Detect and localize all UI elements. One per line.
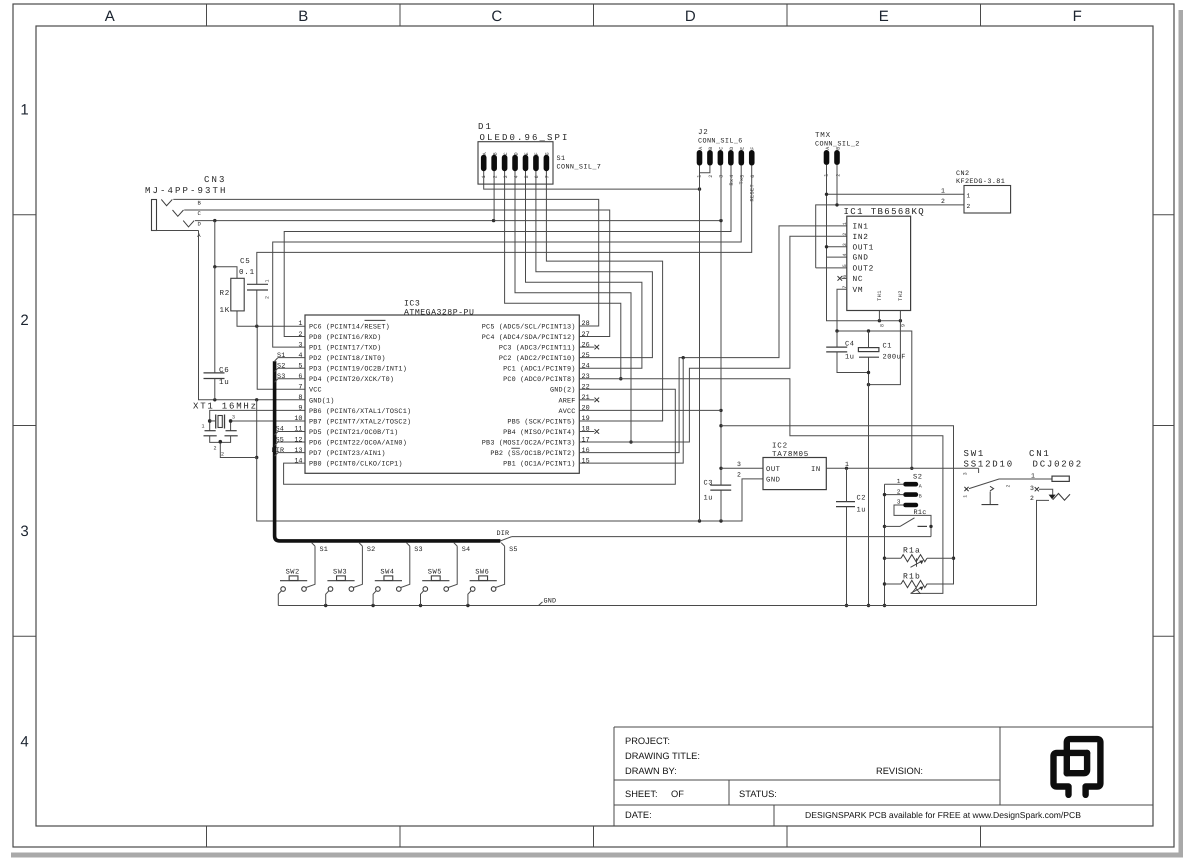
svg-text:7: 7	[545, 175, 551, 178]
svg-text:PB2 (SS/OC1B/PCINT2): PB2 (SS/OC1B/PCINT2)	[490, 450, 575, 458]
svg-text:E: E	[524, 152, 530, 155]
svg-text:D1: D1	[478, 122, 493, 132]
svg-text:MJ-4PP-93TH: MJ-4PP-93TH	[145, 186, 228, 196]
wire GND rail mid	[257, 458, 763, 523]
svg-text:3: 3	[298, 341, 302, 349]
svg-text:1u: 1u	[704, 495, 713, 503]
wire OUT2 TMX2 CN2 pin2	[816, 165, 964, 268]
connector CN3 body	[152, 200, 157, 231]
wire D1 pin4 to MOSI	[515, 171, 633, 444]
wire net DIR	[497, 526, 932, 541]
svg-text:J2: J2	[698, 128, 709, 137]
wire S2 pin3 route	[894, 505, 931, 526]
svg-text:8: 8	[880, 324, 886, 327]
svg-text:23: 23	[582, 373, 590, 381]
svg-text:A: A	[825, 146, 831, 149]
connector CN3 contact D	[183, 221, 194, 227]
title block field DRAWING TITLE	[625, 751, 700, 761]
svg-text:15: 15	[582, 457, 590, 465]
svg-text:2: 2	[835, 173, 841, 176]
svg-text:2: 2	[737, 471, 742, 478]
svg-text:R2: R2	[220, 289, 231, 298]
svg-text:4: 4	[842, 253, 848, 256]
svg-text:Tx: Tx	[739, 177, 745, 184]
wire net S1 drop	[306, 543, 328, 588]
crystal XT1 plates	[216, 415, 225, 429]
connector CN1 spring contact	[1053, 494, 1070, 501]
title block note DesignSpark	[805, 810, 1081, 820]
wire GND drop x257	[255, 400, 258, 459]
bus DIR-S1..S5 thick line	[275, 361, 501, 541]
svg-text:F: F	[1073, 8, 1082, 25]
svg-text:1: 1	[842, 222, 848, 225]
wire J2 pin2 jog	[700, 166, 710, 173]
svg-text:6: 6	[298, 373, 302, 381]
wire net S2 pin5 bus entry	[275, 362, 305, 371]
svg-text:1u: 1u	[219, 379, 230, 387]
svg-text:C2: C2	[857, 495, 866, 503]
wire crystal pin2 to GND	[220, 442, 256, 457]
svg-text:PD2 (PCINT18/INT0): PD2 (PCINT18/INT0)	[309, 355, 386, 363]
wire net C	[184, 210, 610, 337]
wire C3 bottom	[720, 490, 722, 521]
switch SW1 label	[964, 449, 1014, 469]
title block field REVISION	[876, 766, 923, 776]
svg-text:PB1 (OC1A/PCINT1): PB1 (OC1A/PCINT1)	[503, 461, 575, 469]
wire C6 top	[214, 267, 216, 373]
wire C4 top	[836, 331, 838, 347]
svg-text:S1: S1	[557, 155, 566, 163]
title block field DRAWN BY	[625, 766, 677, 776]
svg-text:CONN_SIL_7: CONN_SIL_7	[557, 164, 602, 172]
svg-text:TH1: TH1	[877, 290, 883, 301]
wire net S5 pin12 bus entry	[275, 436, 305, 445]
wire VCC pin7 riser	[257, 326, 305, 389]
wire D1 pin7 to SCK	[546, 171, 662, 421]
svg-text:B: B	[492, 152, 498, 155]
svg-text:27: 27	[582, 331, 590, 339]
connector CN3 contact B	[161, 199, 172, 205]
svg-text:S4: S4	[462, 546, 471, 554]
wire D1 pin5 to PC1	[526, 171, 642, 369]
connector CN3 pin labels	[197, 200, 201, 239]
svg-text:6: 6	[534, 175, 540, 178]
svg-text:14: 14	[294, 457, 302, 465]
title block field PROJECT	[625, 736, 670, 746]
wire D1 pin6 to PC2	[536, 171, 653, 358]
wire SW6 left contact to GND	[468, 591, 471, 606]
svg-text:17: 17	[582, 436, 590, 444]
svg-text:PD0 (PCINT16/RXD): PD0 (PCINT16/RXD)	[309, 334, 381, 342]
connector CN1 pin2	[1030, 495, 1049, 605]
svg-text:OF: OF	[671, 789, 684, 799]
svg-text:RESET: RESET	[750, 184, 756, 202]
svg-text:2: 2	[20, 312, 28, 329]
page shadow bottom	[11, 853, 1183, 858]
wire pin1 line	[237, 311, 305, 328]
svg-text:26: 26	[582, 341, 590, 349]
column labels A-F	[105, 8, 1082, 25]
svg-text:PB6 (PCINT6/XTAL1/TOSC1): PB6 (PCINT6/XTAL1/TOSC1)	[309, 408, 411, 416]
resistor R2	[220, 278, 245, 315]
svg-text:B: B	[835, 146, 841, 149]
svg-text:PC4 (ADC4/SDA/PCINT12): PC4 (ADC4/SDA/PCINT12)	[482, 334, 576, 342]
capacitor C3	[704, 480, 732, 503]
svg-text:SHEET:: SHEET:	[625, 789, 658, 799]
svg-text:PC0 (ADC0/PCINT8): PC0 (ADC0/PCINT8)	[503, 376, 575, 384]
svg-text:F: F	[534, 152, 540, 155]
svg-text:DCJ0202: DCJ0202	[1033, 460, 1083, 470]
crystal load capacitor left	[204, 431, 217, 436]
svg-text:CN2: CN2	[956, 170, 969, 178]
svg-text:1: 1	[1031, 472, 1036, 479]
svg-text:GND(1): GND(1)	[309, 397, 335, 405]
svg-text:1: 1	[20, 101, 28, 118]
IC IC1 no-connect pin NC	[838, 276, 847, 281]
svg-text:20: 20	[582, 405, 590, 413]
connector CN2 label	[956, 170, 1005, 186]
capacitor C2	[836, 495, 866, 515]
wire S2 pin1	[885, 483, 904, 485]
IC IC3 left pin names and numbers 1-14	[294, 320, 411, 468]
switch SW2	[280, 568, 307, 591]
switch SW5	[422, 568, 449, 591]
wire CN3 bottom to A	[152, 230, 199, 232]
potentiometer R1b	[885, 572, 928, 593]
page shadow right	[1179, 10, 1184, 853]
wire VM net	[835, 289, 913, 470]
svg-text:28: 28	[582, 320, 590, 328]
svg-text:PB5 (SCK/PCINT5): PB5 (SCK/PCINT5)	[507, 418, 575, 426]
svg-text:4: 4	[20, 734, 28, 751]
svg-text:VM: VM	[853, 286, 864, 295]
svg-text:21: 21	[582, 394, 590, 402]
connector TMX CONN_SIL_2	[815, 132, 860, 177]
wire S2 common riser	[883, 484, 886, 607]
svg-text:PC2 (ADC2/PCINT10): PC2 (ADC2/PCINT10)	[499, 355, 576, 363]
svg-text:2: 2	[213, 446, 216, 452]
wire net S1 pin4 bus entry	[275, 352, 305, 361]
IC IC2 body	[763, 458, 826, 490]
crystal XT1 pin3	[229, 415, 305, 431]
svg-text:CONN_SIL_6: CONN_SIL_6	[698, 138, 743, 146]
wire +5V to IC2 OUT	[721, 467, 763, 469]
svg-text:Rx: Rx	[729, 178, 735, 185]
svg-text:200uF: 200uF	[883, 354, 907, 362]
wire net DIR pin13 bus entry	[272, 447, 305, 456]
wire R2 top to net D	[213, 221, 237, 279]
svg-text:SW3: SW3	[333, 568, 347, 576]
IC IC3 SS overline	[511, 447, 520, 449]
svg-text:SW6: SW6	[475, 568, 489, 576]
switch R1c lever	[885, 509, 933, 528]
wire TH1 stub	[878, 311, 880, 321]
connector CN3 contact C	[173, 210, 184, 216]
wire net S2 drop	[353, 543, 375, 588]
IC IC3 right pin names and numbers 15-28	[482, 320, 590, 468]
svg-text:TH2: TH2	[898, 290, 904, 301]
wire net S4 pin11 bus entry	[275, 426, 305, 435]
IC IC3 no-connect pin 21	[579, 398, 599, 403]
potentiometer R1a	[885, 546, 954, 567]
svg-text:3: 3	[719, 174, 725, 177]
svg-text:9: 9	[901, 324, 907, 327]
wire SW4 left contact to GND	[373, 591, 376, 606]
svg-text:3: 3	[503, 175, 509, 178]
svg-text:AREF: AREF	[558, 397, 575, 405]
IC IC3 body	[305, 315, 579, 473]
svg-text:19: 19	[582, 415, 590, 423]
svg-text:D: D	[685, 8, 696, 25]
connector CN1 center pin triangle	[1049, 495, 1056, 500]
svg-text:A: A	[482, 152, 488, 155]
svg-text:GND(2): GND(2)	[550, 387, 576, 395]
svg-text:PD6 (PCINT22/OC0A/AIN0): PD6 (PCINT22/OC0A/AIN0)	[309, 439, 407, 447]
svg-text:DIR: DIR	[497, 530, 510, 538]
svg-text:S2: S2	[913, 473, 922, 481]
svg-text:E: E	[740, 146, 746, 149]
wire J2 pin1 drop	[699, 166, 701, 522]
svg-text:IC1 TB6568KQ: IC1 TB6568KQ	[844, 207, 926, 217]
svg-text:AVCC: AVCC	[558, 408, 575, 416]
svg-text:C: C	[719, 146, 725, 149]
DesignSpark logo	[1054, 739, 1101, 795]
wire TH2 stub to C1	[867, 311, 901, 387]
svg-text:PB0 (PCINT0/CLKO/ICP1): PB0 (PCINT0/CLKO/ICP1)	[309, 461, 403, 469]
svg-text:11: 11	[294, 426, 302, 434]
svg-text:4: 4	[298, 352, 302, 360]
svg-text:C: C	[503, 152, 509, 155]
svg-text:5: 5	[524, 175, 530, 178]
switch SW3	[327, 568, 354, 591]
svg-text:S1: S1	[320, 546, 329, 554]
wire net D +5V main	[195, 219, 723, 485]
svg-text:F: F	[750, 146, 756, 149]
svg-text:2: 2	[708, 174, 714, 177]
IC IC2 pin number labels	[737, 461, 850, 479]
svg-text:2: 2	[298, 331, 302, 339]
svg-text:PC5 (ADC5/SCL/PCINT13): PC5 (ADC5/SCL/PCINT13)	[482, 323, 576, 331]
IC IC3 no-connect pin 18	[579, 429, 599, 434]
wire C1 bottom	[867, 357, 870, 607]
svg-text:C: C	[491, 8, 502, 25]
svg-text:TMX: TMX	[815, 132, 831, 140]
title block grid	[614, 727, 1153, 826]
svg-text:PC1 (ADC1/PCINT9): PC1 (ADC1/PCINT9)	[503, 366, 575, 374]
crystal XT1 label	[193, 402, 258, 412]
svg-text:B: B	[298, 8, 308, 25]
svg-text:25: 25	[582, 352, 590, 360]
svg-text:IC2: IC2	[772, 442, 788, 451]
wire AVCC pin20	[579, 409, 721, 411]
svg-text:3: 3	[737, 461, 742, 468]
svg-text:A: A	[919, 483, 922, 489]
svg-text:IN2: IN2	[853, 233, 869, 242]
svg-text:6: 6	[750, 174, 756, 177]
wire C6 bottom	[214, 379, 216, 400]
svg-text:PB7 (PCINT7/XTAL2/TOSC2): PB7 (PCINT7/XTAL2/TOSC2)	[309, 418, 411, 426]
wire C5 bottom	[256, 290, 258, 326]
svg-text:C6: C6	[219, 366, 230, 375]
switch S2 pills	[897, 473, 923, 507]
svg-text:S5: S5	[276, 436, 285, 444]
svg-text:DIR: DIR	[272, 447, 285, 455]
wire net S4 drop	[448, 543, 470, 588]
svg-text:OUT2: OUT2	[853, 265, 875, 274]
wire +5V to R1a	[721, 426, 955, 584]
svg-text:PD1 (PCINT17/TXD): PD1 (PCINT17/TXD)	[309, 345, 381, 353]
svg-text:1: 1	[298, 320, 302, 328]
title block field DATE	[625, 810, 652, 820]
wire IN1 to PB2 pin16	[579, 226, 847, 453]
wire net B	[173, 199, 598, 326]
svg-text:S3: S3	[414, 546, 423, 554]
wire J2 pin3 drop	[720, 166, 722, 221]
switch SW6	[470, 568, 497, 591]
wire SW3 left contact to GND	[326, 591, 329, 606]
svg-text:PD5 (PCINT21/OC0B/T1): PD5 (PCINT21/OC0B/T1)	[309, 429, 398, 437]
svg-text:6: 6	[842, 274, 848, 277]
title block field SHEET OF	[625, 789, 684, 799]
svg-text:SW2: SW2	[286, 568, 300, 576]
svg-text:C1: C1	[883, 343, 892, 351]
svg-text:CN1: CN1	[1029, 449, 1051, 459]
wire net S3 pin6 bus entry	[275, 373, 305, 382]
svg-text:0.1: 0.1	[239, 268, 255, 277]
svg-text:1u: 1u	[845, 354, 854, 362]
wire PB1 pin15 riser	[579, 358, 683, 464]
IC IC2 label TA78M05	[772, 442, 809, 460]
switch SW1 symbol	[962, 472, 1052, 505]
svg-text:CN3: CN3	[204, 175, 227, 185]
svg-text:4: 4	[513, 175, 519, 178]
svg-text:A: A	[105, 8, 115, 25]
svg-text:2: 2	[842, 232, 848, 235]
svg-text:REVISION:: REVISION:	[876, 766, 923, 776]
svg-text:2: 2	[265, 296, 271, 299]
svg-text:B: B	[919, 494, 922, 500]
svg-text:12: 12	[294, 436, 302, 444]
wire IN net	[826, 467, 978, 473]
svg-text:OUT1: OUT1	[853, 243, 875, 252]
svg-text:22: 22	[582, 384, 590, 392]
svg-text:16: 16	[582, 447, 590, 455]
svg-text:PB3 (MOSI/OC2A/PCINT3): PB3 (MOSI/OC2A/PCINT3)	[482, 439, 576, 447]
wire net Rx	[284, 166, 731, 337]
svg-text:2: 2	[1006, 484, 1012, 487]
svg-text:D: D	[729, 146, 735, 149]
svg-text:7: 7	[298, 384, 302, 392]
svg-text:PROJECT:: PROJECT:	[625, 736, 670, 746]
svg-text:VCC: VCC	[309, 387, 322, 395]
switch SW4	[375, 568, 402, 591]
svg-text:S1: S1	[277, 352, 286, 360]
svg-text:SW4: SW4	[380, 568, 394, 576]
crystal load capacitor right	[225, 431, 238, 436]
svg-text:24: 24	[582, 362, 590, 370]
connector CN3 label	[145, 175, 228, 196]
svg-text:4: 4	[729, 174, 735, 177]
svg-text:10: 10	[294, 415, 302, 423]
wire C2 leads	[845, 468, 848, 607]
svg-text:1: 1	[481, 175, 487, 178]
svg-text:2: 2	[492, 175, 498, 178]
wire C4 bottom	[837, 352, 869, 373]
connector CN1 pin3	[1030, 485, 1053, 498]
wire GND rail bottom	[278, 604, 1036, 607]
svg-text:5: 5	[298, 362, 302, 370]
svg-text:5: 5	[842, 264, 848, 267]
svg-text:2: 2	[941, 198, 945, 205]
connector D1 gate label	[557, 155, 602, 172]
wire net GND left	[199, 231, 305, 402]
wire D1 pin3 to PC0	[505, 171, 623, 381]
svg-text:DATE:: DATE:	[625, 810, 652, 820]
svg-text:KF2EDG-3.81: KF2EDG-3.81	[956, 178, 1005, 186]
wire IN2 to PB3 pin17	[579, 236, 847, 442]
svg-text:8: 8	[298, 394, 302, 402]
svg-text:ATMEGA328P-PU: ATMEGA328P-PU	[404, 309, 474, 318]
svg-text:S3: S3	[277, 373, 286, 381]
wire D1 pin1 to J2 pin1	[484, 171, 702, 191]
wire net Tx	[273, 166, 742, 348]
svg-text:PD4 (PCINT20/XCK/T0): PD4 (PCINT20/XCK/T0)	[309, 376, 394, 384]
svg-text:5: 5	[740, 174, 746, 177]
svg-text:1: 1	[967, 192, 971, 199]
connector D1 OLED0.96_SPI	[478, 122, 570, 184]
svg-text:9: 9	[298, 405, 302, 413]
svg-text:GND: GND	[766, 476, 780, 484]
svg-text:S2: S2	[277, 362, 286, 370]
wire PC0 pin23 to R1b wiper	[579, 379, 943, 594]
connector J2 CONN_SIL_6	[697, 128, 756, 202]
capacitor C6	[204, 366, 230, 387]
wire SW2 left contact to GND	[278, 591, 281, 606]
svg-text:C5: C5	[240, 257, 251, 266]
svg-text:1u: 1u	[857, 507, 866, 515]
svg-text:3: 3	[962, 472, 968, 475]
svg-text:IC3: IC3	[404, 300, 420, 309]
wire D1 pin2 drop	[493, 171, 495, 221]
capacitor C4	[826, 341, 854, 362]
wire GND rail label	[539, 597, 557, 605]
svg-text:PC6 (PCINT14/RESET): PC6 (PCINT14/RESET)	[309, 323, 390, 331]
svg-text:1K: 1K	[220, 307, 231, 315]
svg-text:IN: IN	[811, 466, 821, 474]
IC U3 label IC3 ATMEGA328P-PU	[404, 300, 474, 318]
svg-text:PB4 (MISO/PCINT4): PB4 (MISO/PCINT4)	[503, 429, 575, 437]
svg-text:1: 1	[697, 174, 703, 177]
svg-text:E: E	[879, 8, 889, 25]
row labels 1-4	[20, 101, 28, 750]
svg-text:3: 3	[20, 523, 28, 540]
wire OUT1 TMX1 CN2 pin1	[825, 165, 964, 323]
capacitor C5	[239, 257, 271, 299]
connector CN2 body	[964, 186, 1011, 214]
svg-text:S5: S5	[509, 546, 518, 554]
wire net S5 drop	[495, 543, 517, 588]
capacitor C1	[858, 343, 906, 362]
svg-text:3: 3	[842, 243, 848, 246]
svg-text:1: 1	[201, 424, 204, 430]
wire C1 top	[868, 331, 870, 348]
svg-text:STATUS:: STATUS:	[739, 789, 777, 799]
IC IC1 TB6568KQ body and pins	[842, 207, 925, 327]
svg-text:2: 2	[221, 452, 224, 458]
wire net RESET	[257, 166, 752, 285]
svg-text:D: D	[513, 152, 519, 155]
svg-text:2: 2	[1030, 495, 1035, 502]
